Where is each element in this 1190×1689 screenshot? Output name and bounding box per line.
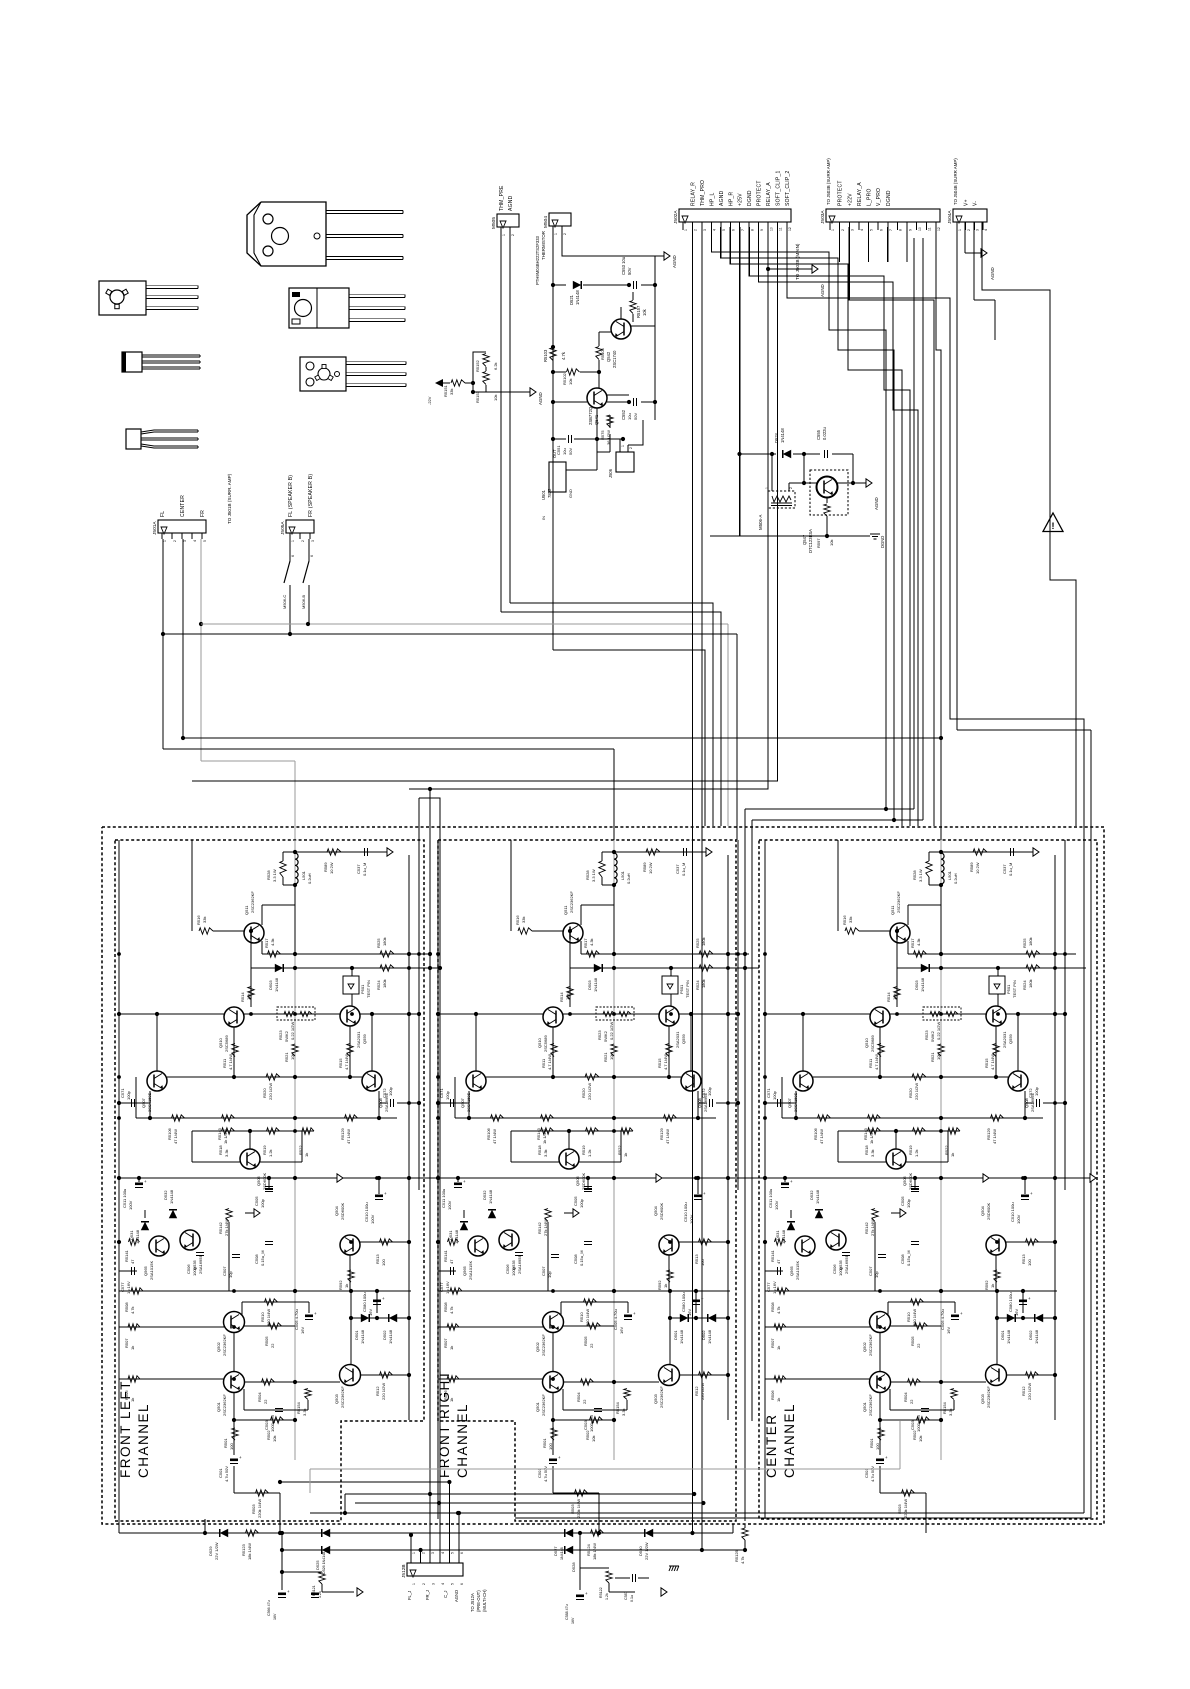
- svg-text:6: 6: [291, 555, 295, 557]
- svg-text:11: 11: [928, 227, 932, 231]
- svg-text:C510 100u: C510 100u: [364, 1202, 369, 1222]
- svg-text:1N4148: 1N4148: [360, 1329, 365, 1344]
- svg-text:R521: R521: [284, 1052, 289, 1062]
- svg-text:R592: R592: [984, 1280, 989, 1290]
- svg-text:180k: 180k: [701, 937, 706, 946]
- svg-text:16V: 16V: [687, 1309, 692, 1316]
- svg-text:DGND: DGND: [880, 536, 885, 548]
- svg-text:2SC2362KF: 2SC2362KF: [541, 1334, 546, 1356]
- svg-text:Q559: Q559: [362, 1033, 367, 1044]
- svg-text:R5106: R5106: [167, 1127, 172, 1140]
- svg-text:47 1/4W: 47 1/4W: [819, 1129, 824, 1144]
- svg-text:100p: 100p: [445, 1090, 450, 1100]
- svg-text:R5154: R5154: [296, 1401, 301, 1414]
- svg-text:R505: R505: [264, 1336, 269, 1346]
- svg-text:100p: 100p: [707, 1086, 712, 1096]
- svg-text:10: 10: [918, 227, 922, 231]
- svg-text:0.22 1/2W: 0.22 1/2W: [936, 1022, 941, 1040]
- svg-text:0.2uH: 0.2uH: [626, 873, 631, 884]
- svg-text:100V: 100V: [1016, 1214, 1021, 1224]
- svg-text:R514: R514: [240, 992, 245, 1002]
- svg-text:3.3 1W: 3.3 1W: [918, 869, 923, 882]
- svg-text:220k 1/4W: 220k 1/4W: [257, 1499, 262, 1518]
- svg-text:5: 5: [722, 229, 726, 231]
- svg-text:R5142: R5142: [537, 1221, 542, 1234]
- svg-text:RELAY_R: RELAY_R: [690, 182, 696, 206]
- svg-text:C580 100u: C580 100u: [362, 1292, 367, 1312]
- svg-text:6: 6: [460, 1552, 464, 1554]
- svg-text:Q503: Q503: [653, 1393, 658, 1404]
- svg-text:C572: C572: [1028, 1088, 1033, 1098]
- svg-text:0.1u: 0.1u: [630, 1595, 634, 1602]
- svg-text:J504A: J504A: [947, 210, 953, 224]
- svg-text:Q510: Q510: [218, 1037, 223, 1048]
- svg-text:+: +: [463, 1179, 466, 1184]
- svg-text:47 1/4W: 47 1/4W: [346, 1129, 351, 1144]
- svg-text:C508: C508: [900, 1254, 905, 1264]
- svg-text:P501: P501: [1006, 984, 1011, 994]
- svg-text:R5102: R5102: [562, 372, 567, 385]
- svg-text:7832: 7832: [547, 488, 552, 498]
- svg-text:5WK2: 5WK2: [603, 1030, 608, 1042]
- svg-text:1.2k: 1.2k: [268, 1149, 273, 1157]
- svg-text:R507: R507: [443, 1338, 448, 1348]
- svg-text:33k: 33k: [521, 917, 526, 923]
- svg-text:R503: R503: [897, 1504, 902, 1514]
- svg-text:R511: R511: [541, 1058, 546, 1068]
- svg-text:100: 100: [1027, 1259, 1032, 1266]
- svg-text:18k 1/4W: 18k 1/4W: [592, 1543, 597, 1560]
- svg-text:1N4148: 1N4148: [920, 977, 925, 992]
- svg-text:R5143: R5143: [536, 1127, 541, 1140]
- svg-text:R5154: R5154: [942, 1401, 947, 1414]
- svg-text:THM_PRO: THM_PRO: [700, 180, 706, 206]
- svg-text:220 1/2W: 220 1/2W: [587, 1083, 592, 1100]
- svg-text:2SC2362KF: 2SC2362KF: [222, 1394, 227, 1416]
- svg-text:J501A: J501A: [152, 521, 158, 535]
- svg-text:+: +: [1028, 1296, 1031, 1301]
- svg-text:22: 22: [589, 1343, 594, 1348]
- svg-text:100p: 100p: [260, 1198, 265, 1208]
- svg-text:D525: D525: [315, 1560, 320, 1570]
- svg-text:2: 2: [694, 229, 698, 231]
- svg-text:R525: R525: [376, 938, 381, 948]
- svg-text:D503: D503: [587, 980, 592, 990]
- svg-text:2SC2362KF: 2SC2362KF: [569, 891, 574, 913]
- svg-text:R520: R520: [262, 1088, 267, 1098]
- svg-text:16V: 16V: [368, 1309, 373, 1316]
- svg-text:Q510: Q510: [864, 1037, 869, 1048]
- svg-text:2SB772Q: 2SB772Q: [588, 406, 593, 425]
- svg-text:D502: D502: [701, 1330, 706, 1340]
- svg-text:100: 100: [700, 1259, 705, 1266]
- svg-text:L501: L501: [947, 870, 952, 880]
- svg-text:16V: 16V: [571, 1617, 575, 1624]
- svg-text:2SD600K: 2SD600K: [659, 1203, 664, 1220]
- svg-text:1N4148: 1N4148: [1034, 1329, 1039, 1344]
- svg-text:2SC2362KF: 2SC2362KF: [222, 1334, 227, 1356]
- svg-text:10 2W: 10 2W: [329, 862, 334, 874]
- svg-text:+25V: +25V: [738, 193, 744, 206]
- svg-text:100p: 100p: [838, 1266, 843, 1276]
- svg-text:R525: R525: [1022, 938, 1027, 948]
- svg-text:R523: R523: [924, 1030, 929, 1040]
- svg-text:D502: D502: [1028, 1330, 1033, 1340]
- svg-text:+: +: [384, 1191, 387, 1196]
- svg-text:Q511: Q511: [890, 905, 895, 915]
- svg-text:HP_L: HP_L: [709, 192, 715, 206]
- svg-text:4.7u 50V: 4.7u 50V: [870, 1466, 875, 1482]
- svg-text:V-: V-: [972, 201, 978, 206]
- svg-text:C510 100u: C510 100u: [683, 1202, 688, 1222]
- svg-text:+: +: [1030, 1191, 1033, 1196]
- svg-text:100p: 100p: [1034, 1086, 1039, 1096]
- svg-text:10k: 10k: [591, 1436, 596, 1442]
- svg-text:R521: R521: [930, 1052, 935, 1062]
- svg-text:R518: R518: [864, 1145, 869, 1155]
- svg-text:R516: R516: [515, 915, 520, 925]
- svg-text:5: 5: [450, 1552, 454, 1554]
- svg-text:Q559: Q559: [1008, 1033, 1013, 1044]
- svg-text:10k: 10k: [272, 1436, 277, 1442]
- svg-text:2: 2: [173, 540, 177, 542]
- svg-text:1N4148: 1N4148: [575, 290, 580, 305]
- svg-text:10k: 10k: [609, 1054, 614, 1060]
- svg-text:C511 100u: C511 100u: [441, 1189, 446, 1208]
- svg-text:C537: C537: [1002, 864, 1007, 874]
- svg-text:0.15u_M: 0.15u_M: [579, 1250, 584, 1266]
- svg-text:V_PRO: V_PRO: [876, 188, 882, 206]
- svg-text:C506: C506: [832, 1264, 837, 1274]
- svg-text:10u: 10u: [562, 448, 567, 455]
- svg-text:R518: R518: [218, 1145, 223, 1155]
- svg-text:R517: R517: [910, 938, 915, 948]
- svg-text:0.15u_M: 0.15u_M: [906, 1250, 911, 1266]
- svg-text:4.7u 50V: 4.7u 50V: [224, 1466, 229, 1482]
- svg-text:C587: C587: [624, 1591, 628, 1600]
- svg-text:2: 2: [511, 234, 515, 236]
- svg-text:D501: D501: [1000, 1330, 1005, 1340]
- svg-text:6.2k: 6.2k: [493, 362, 498, 370]
- svg-text:4: 4: [984, 229, 988, 231]
- svg-text:C508: C508: [254, 1254, 259, 1264]
- svg-text:SOFT_CLIP_2: SOFT_CLIP_2: [785, 170, 791, 206]
- svg-text:C505: C505: [573, 1196, 578, 1206]
- svg-text:D532: D532: [163, 1190, 168, 1200]
- svg-text:180k: 180k: [382, 979, 387, 988]
- svg-text:D532: D532: [482, 1190, 487, 1200]
- svg-text:1: 1: [412, 1583, 416, 1585]
- svg-text:R504: R504: [903, 1392, 908, 1402]
- svg-text:12: 12: [937, 227, 941, 231]
- svg-text:100p: 100p: [579, 1198, 584, 1208]
- svg-text:R511: R511: [868, 1058, 873, 1068]
- svg-text:+: +: [701, 1296, 704, 1301]
- svg-text:1: 1: [831, 229, 835, 231]
- svg-text:+: +: [790, 1179, 793, 1184]
- svg-text:3: 3: [431, 1583, 435, 1585]
- svg-text:100V: 100V: [370, 1214, 375, 1224]
- svg-text:2: 2: [841, 229, 845, 231]
- svg-text:R514: R514: [886, 992, 891, 1002]
- svg-text:D528: D528: [571, 1562, 576, 1572]
- svg-text:R510: R510: [579, 1312, 584, 1322]
- svg-text:AGND: AGND: [672, 255, 677, 268]
- svg-text:4: 4: [441, 1552, 445, 1554]
- svg-text:10k: 10k: [246, 994, 251, 1000]
- svg-text:R589: R589: [969, 862, 974, 872]
- svg-text:R512: R512: [375, 1386, 380, 1396]
- svg-text:4.7u 50V: 4.7u 50V: [543, 1466, 548, 1482]
- svg-text:Q504: Q504: [334, 1205, 339, 1216]
- svg-text:R5106: R5106: [813, 1127, 818, 1140]
- svg-text:2SD600K: 2SD600K: [262, 1173, 267, 1190]
- svg-text:C571: C571: [766, 1088, 771, 1098]
- svg-text:R503: R503: [570, 1504, 575, 1514]
- svg-text:IN: IN: [541, 516, 546, 520]
- svg-text:-22V: -22V: [427, 396, 432, 405]
- svg-text:1: 1: [163, 540, 167, 542]
- svg-text:2SA1695E: 2SA1695E: [517, 1255, 522, 1274]
- svg-text:1: 1: [765, 487, 769, 489]
- svg-text:10k: 10k: [565, 994, 570, 1000]
- svg-text:2: 2: [422, 1583, 426, 1585]
- svg-text:3.3k: 3.3k: [224, 1149, 229, 1157]
- svg-text:27k 1/4W: 27k 1/4W: [543, 1219, 548, 1236]
- svg-text:R521: R521: [603, 1052, 608, 1062]
- svg-text:+: +: [382, 1296, 385, 1301]
- svg-text:RELAY_A: RELAY_A: [766, 182, 772, 206]
- svg-text:R528: R528: [266, 870, 271, 880]
- svg-text:3.3k: 3.3k: [870, 1149, 875, 1157]
- svg-text:J512B: J512B: [401, 1564, 407, 1578]
- svg-text:4: 4: [441, 1583, 445, 1585]
- svg-text:GND: GND: [568, 489, 573, 498]
- svg-text:TO J504B (SURR AMP): TO J504B (SURR AMP): [953, 158, 958, 205]
- svg-text:R516: R516: [842, 915, 847, 925]
- svg-text:R507: R507: [770, 1338, 775, 1348]
- svg-text:SOFT_CLIP_1: SOFT_CLIP_1: [776, 170, 782, 206]
- svg-text:R5154: R5154: [615, 1401, 620, 1414]
- svg-text:CHANNEL: CHANNEL: [136, 1403, 151, 1478]
- svg-text:R5142: R5142: [218, 1221, 223, 1234]
- svg-text:1k: 1k: [344, 1284, 349, 1288]
- svg-text:R520: R520: [581, 1088, 586, 1098]
- svg-text:47 1/4W: 47 1/4W: [992, 1129, 997, 1144]
- svg-text:R508: R508: [443, 1302, 448, 1312]
- svg-text:J505A: J505A: [280, 521, 286, 535]
- svg-text:220 1/2W: 220 1/2W: [381, 1383, 386, 1400]
- svg-text:2SD600K: 2SD600K: [581, 1173, 586, 1190]
- svg-text:C506: C506: [505, 1264, 510, 1274]
- svg-text:16V: 16V: [1014, 1309, 1019, 1316]
- svg-text:R5123: R5123: [241, 1543, 246, 1556]
- svg-text:1N4148: 1N4148: [593, 977, 598, 992]
- svg-text:R524: R524: [695, 980, 700, 990]
- svg-text:5: 5: [203, 540, 207, 542]
- svg-text:22: 22: [263, 1399, 268, 1404]
- svg-text:C566 47u: C566 47u: [267, 1600, 271, 1616]
- svg-text:100p: 100p: [126, 1090, 131, 1100]
- svg-text:R510: R510: [260, 1312, 265, 1322]
- svg-text:TO J501B (SURR. AMP): TO J501B (SURR. AMP): [227, 473, 232, 524]
- svg-text:100V: 100V: [128, 1200, 133, 1210]
- svg-text:FR_J: FR_J: [425, 1590, 430, 1600]
- svg-text:16V: 16V: [300, 1327, 305, 1334]
- svg-text:D521: D521: [569, 294, 574, 305]
- svg-text:C511 100u: C511 100u: [768, 1189, 773, 1208]
- svg-text:2SC2362KF: 2SC2362KF: [541, 1394, 546, 1416]
- svg-text:100V: 100V: [774, 1200, 779, 1210]
- svg-text:D529: D529: [208, 1546, 213, 1556]
- svg-text:R517: R517: [264, 938, 269, 948]
- svg-text:R515: R515: [338, 1058, 343, 1068]
- svg-text:C577: C577: [439, 1282, 444, 1292]
- svg-text:2SA2031: 2SA2031: [356, 1031, 361, 1048]
- svg-text:C552: C552: [621, 409, 626, 420]
- svg-text:1N4148: 1N4148: [488, 1189, 493, 1204]
- svg-text:R5122: R5122: [599, 1587, 603, 1598]
- svg-text:R517: R517: [583, 938, 588, 948]
- svg-text:Q503: Q503: [334, 1393, 339, 1404]
- svg-text:100: 100: [229, 1443, 234, 1450]
- svg-text:R575: R575: [600, 430, 605, 440]
- svg-text:CENTER: CENTER: [764, 1413, 779, 1478]
- svg-text:9: 9: [908, 229, 912, 231]
- svg-text:+22V: +22V: [847, 193, 853, 206]
- svg-text:2SA1695E: 2SA1695E: [844, 1255, 849, 1274]
- svg-text:FRONT RIGHT: FRONT RIGHT: [437, 1370, 452, 1479]
- svg-text:4.7k: 4.7k: [130, 1306, 135, 1314]
- svg-text:2SA1015K: 2SA1015K: [468, 1261, 473, 1280]
- svg-text:Q501: Q501: [862, 1401, 867, 1412]
- svg-text:10k: 10k: [892, 994, 897, 1000]
- svg-text:TO J503B (SURR AMP): TO J503B (SURR AMP): [826, 158, 831, 205]
- svg-text:R5141: R5141: [124, 1249, 129, 1262]
- svg-text:0.1u_M: 0.1u_M: [681, 863, 686, 876]
- svg-text:3.3 1W: 3.3 1W: [591, 869, 596, 882]
- svg-text:PROTECT: PROTECT: [838, 180, 844, 206]
- svg-text:6: 6: [879, 229, 883, 231]
- svg-text:4.7 1/4W: 4.7 1/4W: [874, 1054, 879, 1070]
- svg-text:10k: 10k: [918, 1436, 923, 1442]
- svg-text:0.022u: 0.022u: [822, 427, 827, 440]
- svg-text:+: +: [144, 1179, 147, 1184]
- svg-text:2SA1015K: 2SA1015K: [149, 1261, 154, 1280]
- svg-text:C_J: C_J: [443, 1591, 448, 1598]
- svg-text:R520: R520: [908, 1088, 913, 1098]
- svg-text:27k 1/4W: 27k 1/4W: [224, 1219, 229, 1236]
- svg-text:R589: R589: [323, 862, 328, 872]
- svg-text:2SA2031: 2SA2031: [675, 1031, 680, 1048]
- svg-text:22: 22: [270, 1343, 275, 1348]
- svg-text:PTH9M04BH222TS2F333: PTH9M04BH222TS2F333: [535, 235, 540, 285]
- svg-text:5WK2: 5WK2: [930, 1030, 935, 1042]
- svg-text:4.7k: 4.7k: [561, 351, 566, 360]
- svg-text:3: 3: [183, 540, 187, 542]
- svg-text:R512: R512: [1021, 1386, 1026, 1396]
- svg-text:4.7 1/4W: 4.7 1/4W: [228, 1054, 233, 1070]
- svg-text:R523: R523: [597, 1030, 602, 1040]
- svg-text:C505 4.70u: C505 4.70u: [940, 1309, 945, 1330]
- svg-text:R5129: R5129: [340, 1127, 345, 1140]
- svg-text:2SC5689: 2SC5689: [224, 1035, 229, 1052]
- svg-text:3.3 1W: 3.3 1W: [272, 869, 277, 882]
- svg-text:R513: R513: [1021, 1254, 1026, 1264]
- svg-text:1k: 1k: [990, 1284, 995, 1288]
- svg-text:12: 12: [788, 227, 792, 231]
- svg-text:1k: 1k: [130, 1346, 135, 1350]
- svg-text:6: 6: [460, 1583, 464, 1585]
- svg-text:+: +: [885, 1455, 888, 1460]
- svg-text:D524: D524: [774, 432, 779, 443]
- svg-text:R514: R514: [559, 992, 564, 1002]
- svg-text:DTC123ESA: DTC123ESA: [808, 529, 813, 553]
- svg-text:2SC2362KF: 2SC2362KF: [659, 1386, 664, 1408]
- svg-text:1k: 1k: [623, 1153, 628, 1157]
- svg-text:220k 1/4W: 220k 1/4W: [903, 1499, 908, 1518]
- svg-text:AGND: AGND: [719, 190, 725, 206]
- svg-text:R502: R502: [266, 1430, 271, 1440]
- svg-text:R525: R525: [695, 938, 700, 948]
- svg-text:C537: C537: [356, 864, 361, 874]
- svg-text:27k 1/4W: 27k 1/4W: [870, 1219, 875, 1236]
- svg-text:R512: R512: [694, 1386, 699, 1396]
- svg-text:2SC5689: 2SC5689: [543, 1035, 548, 1052]
- svg-text:CHANNEL: CHANNEL: [455, 1403, 470, 1478]
- svg-text:1: 1: [684, 229, 688, 231]
- svg-text:R5142: R5142: [864, 1221, 869, 1234]
- svg-text:AGND: AGND: [454, 1590, 459, 1602]
- svg-text:1000p_M: 1000p_M: [270, 1415, 275, 1432]
- svg-text:3: 3: [311, 540, 315, 542]
- svg-text:M506-C: M506-C: [282, 595, 287, 609]
- svg-text:+: +: [239, 1455, 242, 1460]
- svg-text:Q505: Q505: [256, 1175, 261, 1186]
- svg-text:Q565: Q565: [143, 1265, 148, 1276]
- svg-text:1N4148: 1N4148: [707, 1329, 712, 1344]
- svg-text:180k: 180k: [382, 937, 387, 946]
- svg-text:R5129: R5129: [986, 1127, 991, 1140]
- svg-text:47: 47: [449, 1259, 454, 1264]
- svg-text:220 1/2W: 220 1/2W: [1027, 1383, 1032, 1400]
- svg-text:+: +: [314, 1311, 317, 1316]
- svg-text:AGND: AGND: [820, 284, 825, 297]
- svg-text:FL (SPEAKER B): FL (SPEAKER B): [288, 475, 294, 517]
- svg-text:220k 1/4W: 220k 1/4W: [576, 1499, 581, 1518]
- svg-text:7: 7: [741, 229, 745, 231]
- svg-text:1N4148: 1N4148: [169, 1189, 174, 1204]
- svg-text:C507: C507: [222, 1266, 227, 1276]
- svg-text:R510: R510: [906, 1312, 911, 1322]
- svg-text:10k: 10k: [829, 540, 834, 546]
- svg-text:+: +: [703, 1191, 706, 1196]
- svg-text:100p: 100p: [511, 1266, 516, 1276]
- svg-text:D532: D532: [809, 1190, 814, 1200]
- svg-text:100p: 100p: [388, 1086, 393, 1096]
- svg-text:3: 3: [850, 229, 854, 231]
- svg-text:1k: 1k: [304, 1153, 309, 1157]
- svg-text:R5106: R5106: [486, 1127, 491, 1140]
- svg-text:R5129: R5129: [659, 1127, 664, 1140]
- svg-text:2SC2362KF: 2SC2362KF: [868, 1334, 873, 1356]
- svg-text:FL_J: FL_J: [407, 1591, 412, 1600]
- svg-text:R5125: R5125: [734, 1549, 739, 1562]
- svg-text:P501: P501: [360, 984, 365, 994]
- svg-text:R502: R502: [585, 1430, 590, 1440]
- svg-text:1k: 1k: [449, 1346, 454, 1350]
- svg-text:0.1u_M: 0.1u_M: [362, 863, 367, 876]
